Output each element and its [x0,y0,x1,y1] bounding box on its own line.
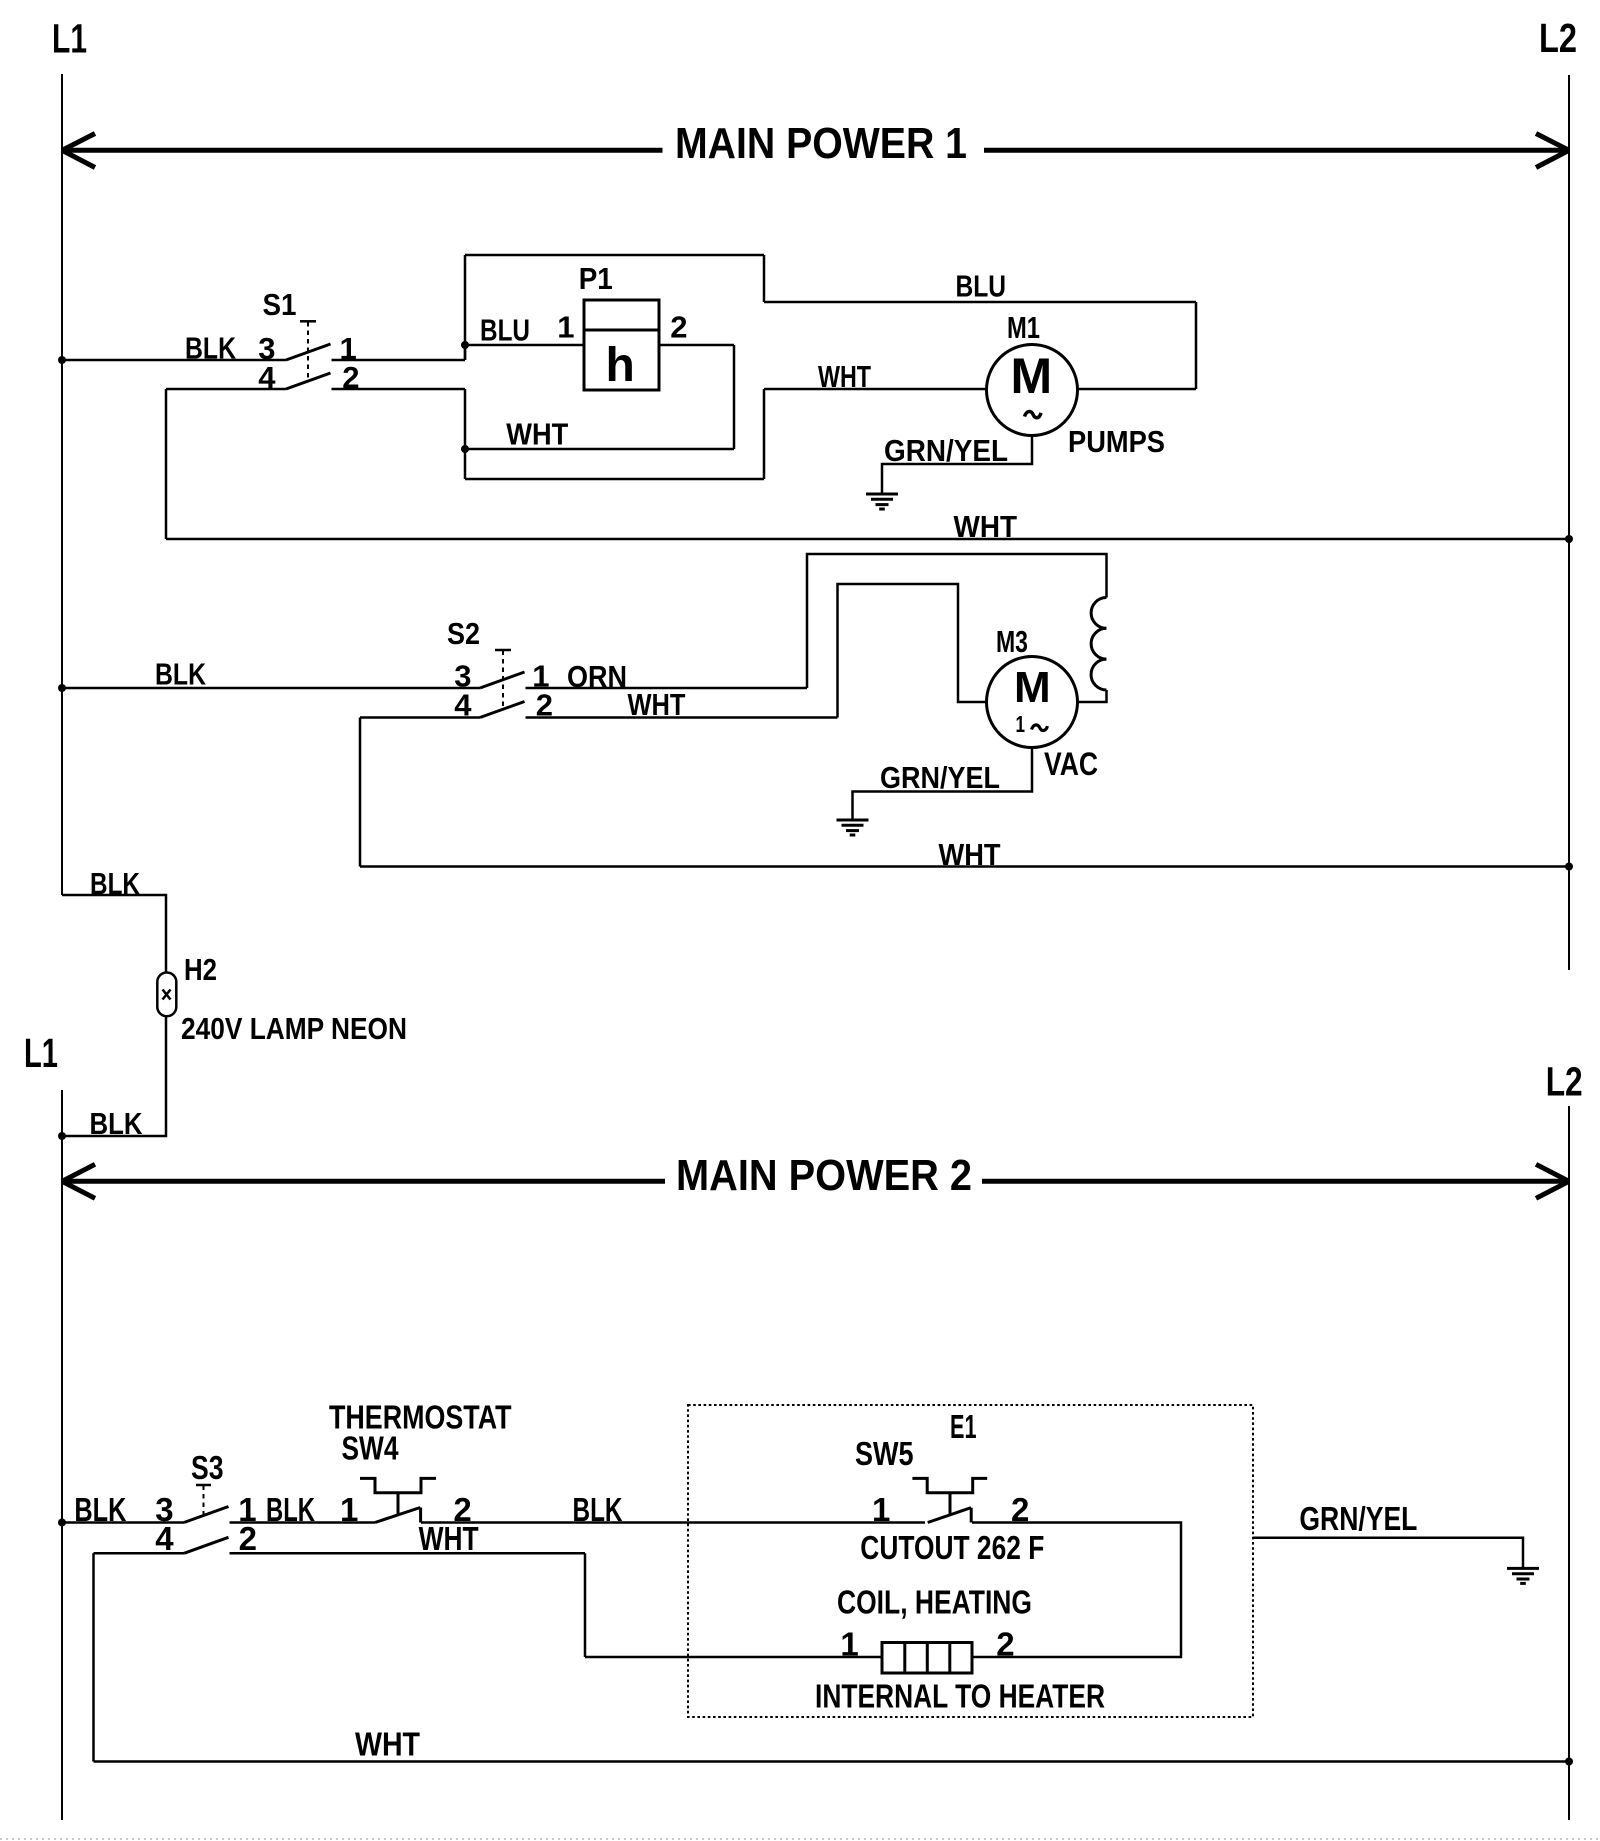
label BLK (S3 row) [74,1491,126,1528]
heater element E1 coil box [882,1643,972,1674]
label 2 (SW4 pin) [453,1491,471,1528]
label S3 [191,1449,224,1486]
label WHT (node B wire) [506,417,568,452]
component P1 pressure switch box [584,300,659,390]
svg-text:BLU: BLU [956,269,1007,304]
label 2 (coil pin) [996,1626,1014,1663]
wire S3 pin2 to heater drop [230,1552,586,1555]
svg-text:L1: L1 [24,1030,58,1076]
label BLK (above H2) [90,866,140,901]
wire BLK L1 to S3 pin3 [62,1521,184,1524]
svg-text:S1: S1 [263,287,297,322]
svg-text:WHT: WHT [939,837,1001,872]
switch S3 pole 4-2 blade [184,1537,229,1553]
label PUMPS [1068,424,1165,459]
wire S1 pin2 to node B drop [332,389,466,479]
wire heater coil pin1 to S3 drop [585,1656,882,1659]
label M3 [996,624,1028,659]
svg-text:E1: E1 [950,1408,977,1445]
inductor M3 start winding [1091,598,1106,691]
switch S2 dashed actuator [495,650,511,706]
wire M3 inner riser [838,584,987,718]
svg-text:1: 1 [872,1491,890,1528]
svg-text:M3: M3 [996,624,1028,659]
node L2 (upper rail label) [1539,15,1577,61]
wire P1 pin2 to node B [465,345,734,449]
label CUTOUT 262 F [860,1529,1044,1566]
label 1 (SW4 pin) [340,1491,358,1528]
svg-text:BLK: BLK [90,1106,144,1141]
label E1 [950,1408,977,1445]
svg-text:1: 1 [557,310,574,345]
node L1 (lower rail label) [24,1030,58,1076]
wire BLU drop to M1 right [1078,302,1197,389]
svg-text:BLK: BLK [74,1491,126,1528]
page bottom perforation line [0,1838,1600,1840]
wire S2 row2 drop [359,718,362,867]
label 3 (S2) [454,659,471,694]
svg-text:L2: L2 [1546,1058,1583,1104]
switch SW5 blade [928,1508,972,1523]
wire GRN/YEL M3 to ground [853,748,1033,820]
svg-text:BLK: BLK [266,1491,315,1528]
label H2 [184,952,217,987]
svg-text:MAIN POWER 1: MAIN POWER 1 [675,119,967,168]
node B junction dot [461,445,469,453]
label 4 (S2) [454,688,472,723]
switch S1 dashed actuator [300,321,316,377]
switch S3 dashed actuator [196,1485,211,1516]
lamp H2 body [157,973,176,1017]
wire L2 upper rail [1568,75,1570,970]
label M (inside M1) [1011,348,1053,404]
svg-text:COIL, HEATING: COIL, HEATING [837,1584,1032,1621]
label WHT (left of M1) [818,359,871,394]
svg-text:L2: L2 [1539,15,1577,61]
svg-text:L1: L1 [52,16,87,62]
junction dot L1/S1 [58,356,66,364]
wire S1 pin4 from corner [166,388,286,391]
wire node A to P1 pin1 [465,344,584,347]
wire S1 row2 drop [165,389,168,539]
wire L1 upper rail [61,74,63,895]
svg-text:M1: M1 [1007,310,1040,345]
wire pump-loop right lower edge [763,389,766,479]
svg-text:PUMPS: PUMPS [1068,424,1165,459]
switch S1 pole 3-1 blade [286,344,331,360]
switch S3 pole 3-1 blade [184,1507,229,1523]
label 3 (S3) [155,1491,173,1528]
junction dot H2 / L1 lower [58,1132,66,1140]
wire BLK L1 corner to H2 [62,895,166,972]
junction dot L1/S3 [58,1519,66,1527]
svg-text:CUTOUT 262 F: CUTOUT 262 F [860,1529,1044,1566]
svg-text:BLK: BLK [185,331,236,366]
svg-text:SW5: SW5 [855,1435,914,1472]
label WHT (return 2) [939,837,1001,872]
motor M3 circle [987,657,1078,748]
wire BLK L1 to S1 pin3 [62,359,286,362]
wire BLK SW4 to SW5 [421,1521,925,1524]
label 2 (P1 pin) [670,310,687,345]
svg-text:4: 4 [155,1520,174,1557]
label VAC [1044,746,1098,782]
svg-text:BLK: BLK [90,866,140,901]
label BLK (S1 row) [185,331,236,366]
svg-text:S2: S2 [447,616,480,651]
wire S3 row2 heater drop [584,1553,587,1657]
wire pump-loop left upper edge [464,255,467,360]
thermostat SW5 actuator bracket [912,1478,987,1516]
ground symbol (M1) [866,494,898,509]
main power 1 left arrowhead [62,134,95,168]
ground symbol (E1) [1507,1568,1539,1583]
svg-text:WHT: WHT [818,359,871,394]
node L1 (upper rail label) [52,16,87,62]
junction dot WHT bottom / L2 [1565,1758,1573,1766]
label MAIN POWER 2 [676,1151,972,1200]
svg-text:SW4: SW4 [342,1430,400,1467]
label GRN/YEL (M3) [880,760,1000,795]
wire BLK L1 to S2 pin3 [62,687,480,690]
svg-text:VAC: VAC [1044,746,1098,782]
svg-text:1: 1 [1016,711,1026,737]
wire ORN riser / M3 loop top [807,554,1107,688]
label BLU (top of M1) [956,269,1007,304]
label BLU (node A) [480,313,530,348]
ground symbol (M3) [837,820,869,835]
wire S1 pin1 to node A [332,345,466,360]
label SW5 [855,1435,914,1472]
motor M1 circle [987,345,1078,436]
switch S2 pole 4-2 blade [480,702,525,718]
svg-text:WHT: WHT [954,509,1018,544]
label 1~ (inside M3) [1016,711,1048,737]
svg-text:4: 4 [258,360,276,395]
label GRN/YEL (E1) [1299,1500,1417,1537]
svg-text:1: 1 [340,1491,358,1528]
node L2 (lower rail label) [1546,1058,1583,1104]
main power 2 right arrowhead [1536,1164,1569,1198]
label WHT (bottom return) [355,1726,420,1763]
wire S3 pin4 left corner [94,1552,185,1555]
thermostat SW4 actuator bracket [360,1478,436,1516]
svg-text:S3: S3 [191,1449,224,1486]
switch S1 pole 4-2 blade [286,373,331,389]
label S1 [263,287,297,322]
enclosure E1 dotted box [688,1405,1253,1717]
svg-text:2: 2 [239,1520,257,1557]
wire ORN S2 pin1 to M3 loop [526,687,808,690]
wire GRN/YEL M1 to ground [882,436,1032,494]
label ~ (inside M1) [1025,412,1042,418]
svg-text:MAIN POWER 2: MAIN POWER 2 [676,1151,972,1200]
svg-text:BLU: BLU [480,313,530,348]
label BLK (S2 row) [155,657,206,692]
lamp H2 cross [163,990,171,1000]
label S2 [447,616,480,651]
label 2 (S3) [239,1520,257,1557]
svg-text:WHT: WHT [506,417,568,452]
main power 2 left arrowhead [62,1164,95,1198]
junction dot WHT return 2 / L2 [1565,863,1573,871]
svg-text:INTERNAL TO HEATER: INTERNAL TO HEATER [815,1678,1105,1715]
svg-text:BLK: BLK [155,657,206,692]
svg-text:M: M [1014,663,1051,712]
label BLK (SW4-E1) [573,1491,623,1528]
label 2 (S2) [536,688,553,723]
svg-text:BLK: BLK [573,1491,623,1528]
svg-text:2: 2 [670,310,687,345]
wire WHT bottom return [94,1760,1570,1763]
label 1 (coil pin) [840,1626,858,1663]
svg-text:2: 2 [996,1626,1014,1663]
label M (inside M3) [1014,663,1051,712]
wire WHT M1 left [764,388,987,391]
label 4 (S3) [155,1520,174,1557]
main power 1 right arrowhead [1536,134,1569,168]
svg-text:P1: P1 [579,261,613,296]
main power 2 arrow line left [62,1179,665,1184]
wire GRN/YEL E1 to ground [1253,1538,1523,1567]
node A junction dot [461,341,469,349]
label h (inside P1) [606,339,635,392]
label INTERNAL TO HEATER [815,1678,1105,1715]
wire S3 row2 drop [92,1553,95,1761]
label 240V LAMP NEON [181,1011,407,1046]
wire S2 pin2 to M3 inner [526,716,838,719]
wire pump-loop right upper edge [763,255,766,302]
svg-text:H2: H2 [184,952,217,987]
wire pump-loop top edge [465,254,764,257]
label M1 [1007,310,1040,345]
label WHT (S3 row2) [419,1520,479,1557]
label 2 (SW5 pin) [1011,1491,1029,1528]
wire inductor to M3 right [1078,690,1107,702]
wire SW5 pin2 to heater coil [972,1523,1181,1658]
wire H2 to L1 lower rail [62,1016,166,1136]
label 1 (S2) [532,659,549,694]
label 2 (S1) [342,360,359,395]
wire pump-loop bottom edge [465,478,764,481]
label P1 [579,261,613,296]
label 1 (S3) [238,1491,256,1528]
label BLK (below H2) [90,1106,144,1141]
svg-text:M: M [1011,348,1053,404]
label 3 (S1) [258,331,275,366]
wire L2 lower rail [1568,1106,1570,1820]
main power 1 arrow line left [62,148,663,153]
svg-text:WHT: WHT [355,1726,420,1763]
label SW4 [342,1430,400,1467]
label BLK (S3-SW4) [266,1491,315,1528]
wire WHT return 2 [360,865,1569,868]
wire BLU to M1 [764,301,1196,304]
wire S3 pin1 to SW4 [230,1521,376,1524]
label GRN/YEL (M1) [884,433,1008,468]
switch S2 pole 3-1 blade [480,672,525,688]
svg-text:GRN/YEL: GRN/YEL [1299,1500,1417,1537]
svg-text:GRN/YEL: GRN/YEL [884,433,1008,468]
svg-text:GRN/YEL: GRN/YEL [880,760,1000,795]
main power 2 arrow line right [982,1179,1568,1184]
svg-text:240V LAMP NEON: 240V LAMP NEON [181,1011,407,1046]
wire WHT return 1 [166,538,1569,541]
label 1 (S1) [340,331,357,366]
junction dot WHT return 1 / L2 [1565,535,1573,543]
label THERMOSTAT [329,1399,512,1436]
junction dot L1/S2 [58,684,66,692]
label WHT (return 1) [954,509,1018,544]
svg-text:h: h [606,339,635,392]
main power 1 arrow line right [984,148,1568,153]
wire L1 lower rail [61,1090,63,1820]
label 1 (P1 pin) [557,310,574,345]
label ORN [567,659,627,694]
switch SW4 blade [375,1508,421,1523]
label WHT (S2 row2) [628,687,686,722]
label 4 (S1) [258,360,276,395]
label 1 (SW5 pin) [872,1491,890,1528]
wire S2 pin4 left corner [360,716,480,719]
label MAIN POWER 1 [675,119,967,168]
label COIL, HEATING [837,1584,1032,1621]
